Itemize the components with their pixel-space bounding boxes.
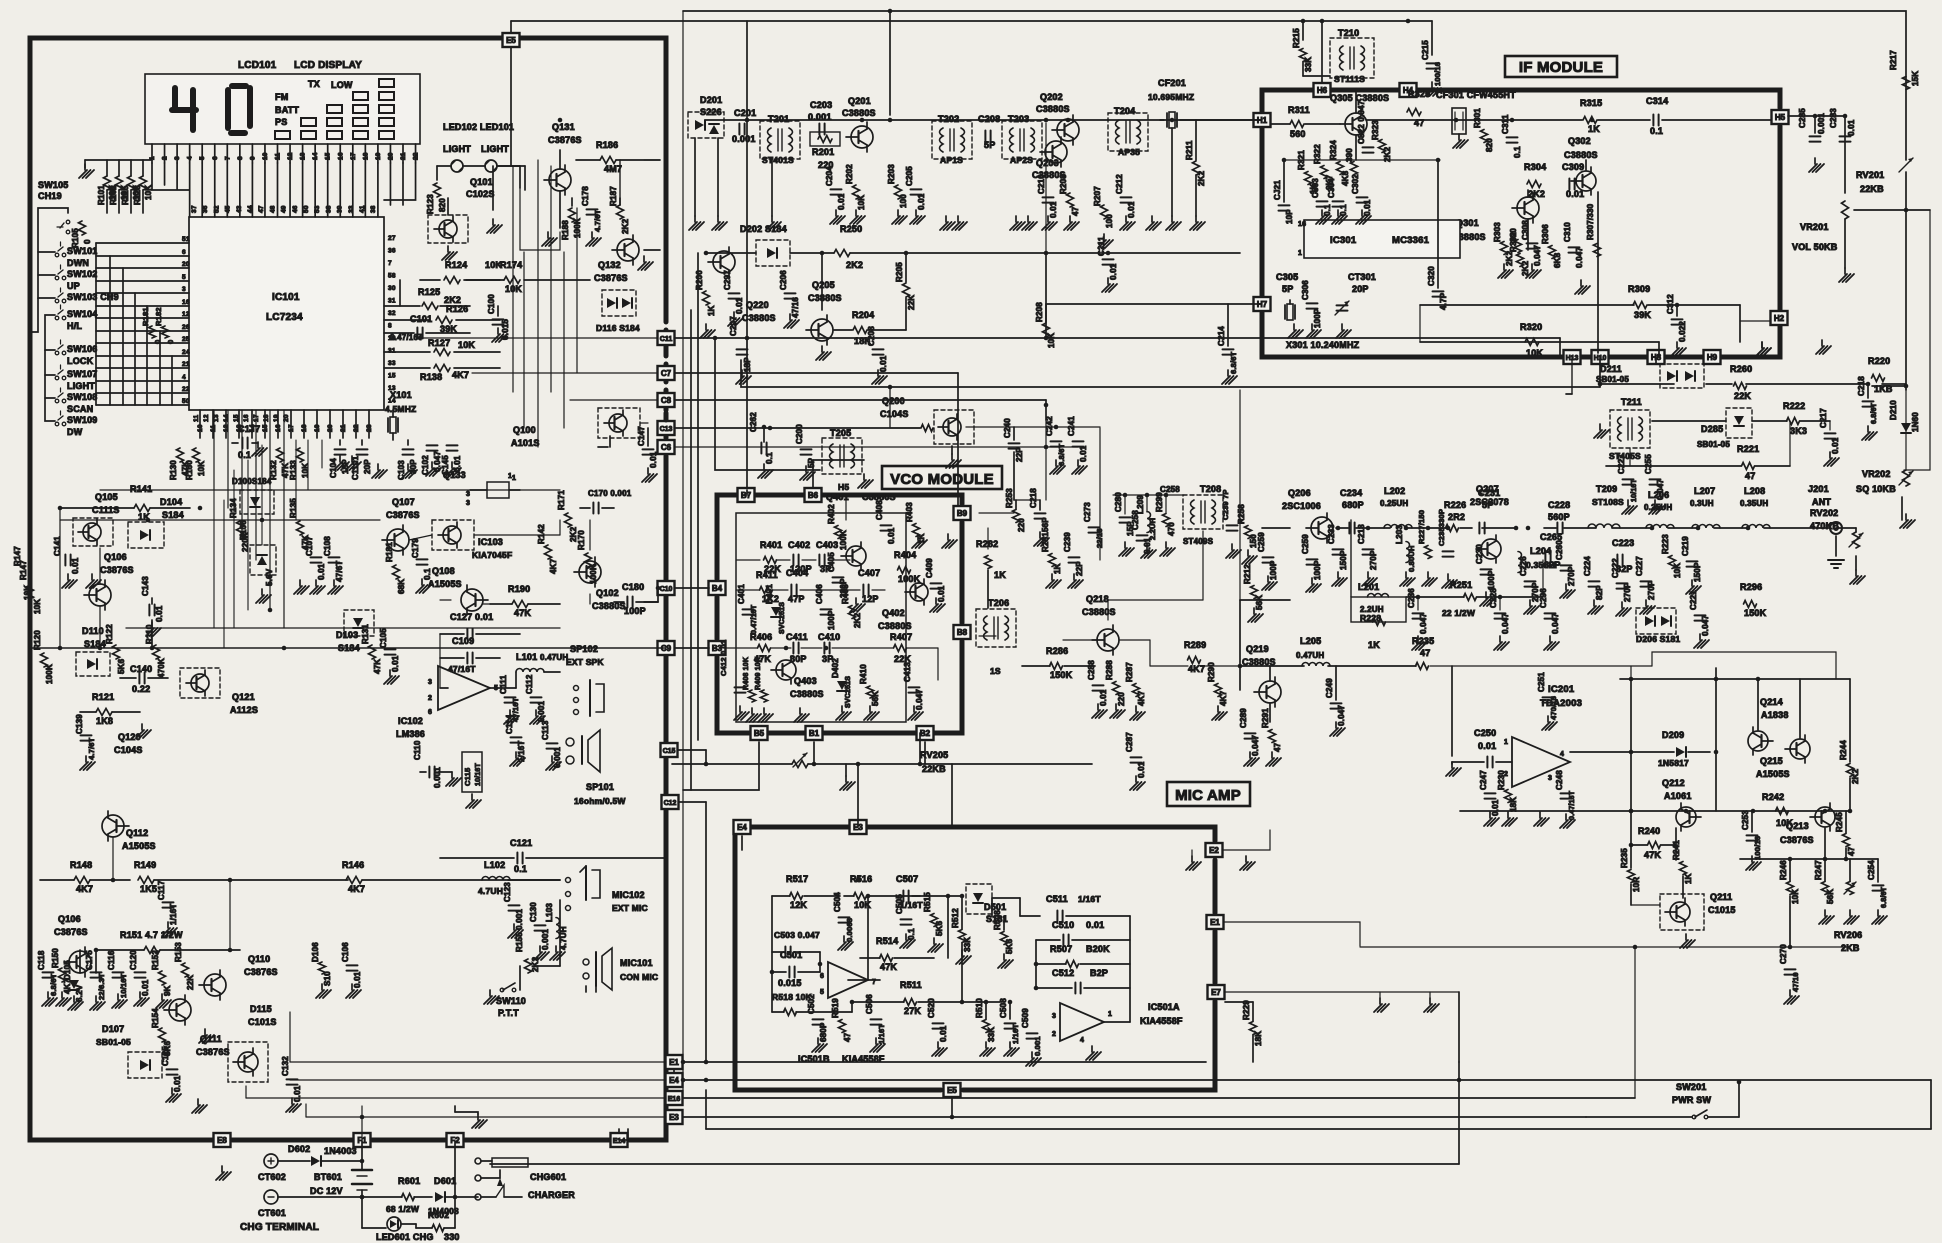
resistor R405	[841, 584, 862, 628]
connector C7	[658, 366, 675, 380]
svg-text:R304: R304	[1524, 162, 1546, 172]
svg-text:150P: 150P	[1693, 562, 1702, 582]
svg-text:C228: C228	[1548, 500, 1570, 510]
inbox row C8	[570, 399, 657, 401]
capacitor C314	[1646, 96, 1668, 136]
diode D210	[1889, 400, 1920, 433]
svg-text:5P: 5P	[1282, 284, 1293, 294]
svg-text:C412 0.01: C412 0.01	[719, 640, 728, 676]
connector H10	[1592, 350, 1609, 364]
bus y=610 left	[30, 647, 666, 649]
svg-text:4: 4	[1080, 1037, 1084, 1044]
svg-text:C273: C273	[1083, 502, 1092, 522]
ground IC501A	[1086, 1046, 1101, 1060]
pot VR201	[1792, 201, 1930, 470]
capacitor C230	[1475, 544, 1496, 590]
svg-text:46: 46	[292, 205, 299, 213]
transistor Q205 labels	[808, 280, 842, 303]
ground E7	[1374, 992, 1439, 1012]
resistor R228	[1360, 613, 1386, 650]
connector C12	[662, 795, 679, 809]
ground C102 C145	[426, 462, 461, 476]
svg-text:0.01: 0.01	[879, 355, 888, 372]
resistor R110	[145, 624, 166, 678]
terminal CT602	[258, 1154, 286, 1182]
wire row2	[706, 252, 1240, 254]
svg-text:10P: 10P	[1285, 209, 1294, 224]
wires audio	[1240, 652, 1836, 756]
svg-text:TX: TX	[308, 79, 320, 89]
svg-text:1: 1	[1298, 250, 1302, 257]
svg-text:C226: C226	[1519, 556, 1528, 576]
ground C177	[252, 442, 267, 456]
bus C10 row	[675, 587, 709, 589]
svg-text:ST111S: ST111S	[1334, 74, 1365, 84]
svg-text:2K2: 2K2	[853, 612, 862, 628]
resistor R170	[577, 530, 598, 584]
svg-text:C212: C212	[1115, 174, 1124, 194]
capacitor C130	[529, 902, 550, 950]
svg-text:R511: R511	[900, 980, 922, 990]
resistor R518	[772, 992, 813, 1016]
inductor L206	[1644, 490, 1674, 528]
svg-text:10K: 10K	[144, 185, 153, 200]
svg-text:0.01: 0.01	[293, 1085, 302, 1102]
capacitor C242	[1045, 416, 1066, 466]
resistor R281	[1041, 532, 1062, 574]
resistor R409	[755, 657, 768, 702]
svg-text:C305: C305	[1276, 272, 1298, 282]
capacitor C232	[1357, 524, 1378, 570]
vertical from C215	[1431, 21, 1433, 55]
svg-text:22: 22	[182, 386, 190, 393]
svg-text:Q214: Q214	[1760, 697, 1783, 707]
resistor R146	[230, 860, 560, 894]
svg-text:0.047: 0.047	[1533, 245, 1542, 266]
capacitor C214	[1217, 326, 1238, 384]
svg-text:22P: 22P	[1075, 561, 1084, 576]
transistor Q403 labels	[790, 676, 824, 699]
switch SW106	[55, 340, 97, 366]
mic amp border	[735, 827, 1215, 1090]
transformer T210	[1330, 28, 1374, 84]
svg-text:C309: C309	[1562, 162, 1584, 172]
bus C8 row	[675, 400, 1046, 420]
connector E3	[850, 820, 867, 834]
svg-text:H5: H5	[1775, 113, 1786, 122]
svg-text:B9: B9	[957, 509, 968, 518]
inductor L204	[1518, 546, 1555, 573]
svg-text:Q107: Q107	[392, 497, 415, 507]
svg-text:C110: C110	[413, 740, 422, 760]
svg-text:33K: 33K	[1304, 57, 1313, 72]
svg-text:100P: 100P	[1313, 308, 1322, 328]
resistor R247	[1814, 859, 1835, 924]
capacitor C303	[1311, 178, 1332, 216]
svg-text:CT301: CT301	[1348, 272, 1376, 282]
svg-text:H2: H2	[1774, 314, 1785, 323]
wire IF H2	[1740, 321, 1771, 356]
svg-text:C3880S: C3880S	[842, 108, 876, 118]
label CHG TERMINAL	[240, 1222, 319, 1233]
capacitor C209	[867, 326, 888, 384]
transistor Q220	[708, 247, 735, 277]
svg-text:R186: R186	[596, 140, 618, 150]
transformer T206	[976, 598, 1016, 676]
svg-text:D402: D402	[831, 658, 840, 678]
capacitor C504	[833, 892, 854, 950]
svg-text:100P: 100P	[1269, 560, 1278, 580]
capacitor C102	[421, 445, 442, 475]
diode D116	[596, 290, 640, 333]
svg-text:D115: D115	[250, 1004, 272, 1014]
svg-text:C222: C222	[1611, 558, 1620, 578]
vertical H6 top	[1321, 21, 1323, 82]
svg-text:S184: S184	[84, 639, 106, 649]
capacitor C503	[772, 930, 820, 958]
vertical x1045	[1044, 123, 1049, 500]
svg-text:C401: C401	[737, 584, 746, 604]
svg-text:R405: R405	[841, 584, 850, 604]
bus C11 row	[675, 336, 1560, 357]
svg-text:IC301: IC301	[1330, 235, 1357, 246]
resistor R211	[1185, 140, 1206, 186]
ground C204	[830, 210, 865, 224]
resistor R203	[887, 164, 908, 208]
svg-text:R404: R404	[894, 550, 916, 560]
svg-text:0.001: 0.001	[1033, 1036, 1042, 1056]
wires LED	[437, 166, 520, 188]
svg-text:L201: L201	[1358, 582, 1379, 592]
svg-text:C208: C208	[867, 326, 876, 346]
capacitor C511	[992, 894, 1130, 922]
svg-text:C7: C7	[661, 369, 672, 378]
svg-text:R135: R135	[289, 498, 298, 518]
svg-text:47: 47	[1745, 471, 1755, 481]
svg-text:DC 12V: DC 12V	[310, 1186, 343, 1196]
resistor R245	[1835, 811, 1856, 859]
svg-text:Q133: Q133	[443, 470, 466, 480]
svg-text:E5: E5	[506, 36, 516, 45]
svg-text:560: 560	[1290, 129, 1306, 139]
svg-text:C6: C6	[661, 443, 672, 452]
svg-text:R519: R519	[831, 998, 840, 1018]
svg-text:R151 4.7 1/2W: R151 4.7 1/2W	[120, 930, 183, 940]
bus C13 row	[675, 427, 920, 429]
svg-text:AP2S: AP2S	[1010, 155, 1033, 165]
svg-text:33K: 33K	[987, 1027, 996, 1042]
resistor R151	[96, 947, 240, 954]
svg-text:C106: C106	[341, 942, 350, 962]
svg-text:47K: 47K	[1644, 850, 1661, 860]
svg-text:33: 33	[348, 205, 355, 213]
svg-text:2K2: 2K2	[846, 260, 863, 270]
svg-text:T205: T205	[830, 428, 851, 438]
svg-text:R146: R146	[342, 860, 364, 870]
resistor R309	[1628, 284, 1651, 320]
diode D110	[76, 626, 110, 676]
svg-text:5P: 5P	[807, 457, 816, 468]
transistor Q201	[846, 122, 873, 152]
transistor Q106 labels	[100, 552, 134, 575]
wire rail 811	[1460, 809, 1852, 814]
capacitor C223	[1612, 538, 1634, 574]
svg-text:C511: C511	[1046, 894, 1068, 904]
transistor Q108	[461, 585, 488, 615]
transistor Q202	[1052, 115, 1079, 145]
capacitor C235	[1437, 509, 1454, 557]
svg-text:14: 14	[312, 152, 319, 160]
resistor R141	[60, 484, 190, 522]
svg-text:0.80UH: 0.80UH	[1407, 545, 1416, 572]
capacitor C210	[1037, 174, 1058, 218]
svg-text:C240: C240	[1003, 418, 1012, 438]
capacitor C117	[157, 880, 178, 936]
svg-text:C3876S: C3876S	[54, 927, 88, 937]
resistor R208	[1035, 302, 1056, 348]
extra mid verticals	[691, 253, 772, 790]
resistor R138	[384, 365, 500, 383]
svg-text:H6: H6	[1317, 86, 1328, 95]
svg-text:0.047: 0.047	[915, 689, 924, 710]
capacitor C180	[614, 582, 658, 616]
diode D601	[428, 1176, 478, 1216]
capacitor C145	[441, 445, 462, 475]
resistor R215	[1292, 28, 1313, 72]
svg-text:C255: C255	[1644, 454, 1653, 474]
resistor R290	[1207, 662, 1228, 706]
svg-text:C253: C253	[1741, 810, 1750, 830]
svg-text:100P: 100P	[624, 606, 646, 616]
svg-text:6.8/6T: 6.8/6T	[49, 973, 58, 996]
svg-text:0.01: 0.01	[391, 655, 400, 672]
svg-text:L203: L203	[1395, 525, 1404, 544]
svg-text:0.01: 0.01	[1137, 761, 1146, 778]
resistor R235	[1412, 636, 1434, 670]
wire B6 up	[813, 460, 864, 487]
svg-text:R407: R407	[890, 632, 912, 642]
svg-text:H5: H5	[838, 482, 849, 492]
svg-text:0.0068: 0.0068	[845, 918, 854, 942]
svg-text:10: 10	[197, 424, 204, 432]
grounds q120	[80, 724, 151, 770]
svg-text:R181: R181	[141, 307, 150, 326]
wire output to audio	[1240, 599, 1290, 601]
svg-text:C404: C404	[786, 568, 808, 578]
svg-text:0.001: 0.001	[541, 929, 550, 950]
svg-text:D601: D601	[434, 1176, 456, 1186]
svg-text:100P: 100P	[1487, 570, 1496, 590]
svg-text:51: 51	[182, 236, 190, 243]
resistor R304	[1524, 162, 1546, 199]
svg-text:R102: R102	[109, 185, 118, 205]
svg-text:47: 47	[1420, 648, 1430, 658]
svg-text:C3876S: C3876S	[548, 135, 582, 145]
svg-text:22/6.3T: 22/6.3T	[97, 973, 106, 1000]
VCO module title box	[882, 466, 1002, 489]
svg-text:LIGHT: LIGHT	[443, 144, 471, 154]
svg-text:C303: C303	[1311, 178, 1320, 198]
svg-text:C297: C297	[723, 270, 732, 290]
svg-text:2: 2	[162, 156, 169, 160]
svg-text:D106: D106	[239, 520, 248, 540]
svg-text:CHARGER: CHARGER	[528, 1190, 575, 1200]
svg-text:C258: C258	[1160, 485, 1180, 494]
svg-text:E8: E8	[217, 1136, 227, 1145]
svg-text:680P: 680P	[819, 1022, 828, 1042]
diode D206	[1636, 608, 1680, 644]
svg-text:Q108: Q108	[432, 566, 455, 576]
svg-text:47K: 47K	[880, 962, 897, 972]
transformer T204	[1108, 106, 1148, 157]
svg-text:R411: R411	[756, 570, 778, 580]
svg-text:T210: T210	[1338, 28, 1359, 38]
svg-text:1K: 1K	[1588, 124, 1600, 134]
svg-text:C143: C143	[141, 576, 150, 596]
transistor Q214	[1748, 679, 1773, 755]
resistor R125	[384, 287, 470, 310]
resistor R200	[695, 270, 716, 316]
resistor R260	[1730, 364, 1752, 401]
svg-text:C121: C121	[510, 838, 532, 848]
ground IC201	[1534, 812, 1549, 826]
svg-text:L101: L101	[516, 652, 537, 662]
diode D602	[278, 1144, 362, 1166]
transistor Q220 labels	[742, 300, 776, 323]
svg-text:R245: R245	[1835, 812, 1844, 832]
connector H2	[1771, 311, 1788, 325]
svg-text:22 1/2W: 22 1/2W	[1442, 608, 1476, 618]
svg-text:C116: C116	[107, 950, 116, 970]
svg-text:36: 36	[202, 205, 209, 213]
transistor Q132	[612, 235, 639, 265]
transistor Q305 labels	[1330, 93, 1389, 103]
svg-text:CJ21: CJ21	[1273, 180, 1282, 200]
svg-text:X301 10.240MHZ: X301 10.240MHZ	[1286, 340, 1360, 350]
resistor R115	[121, 176, 141, 205]
svg-text:A1838: A1838	[1761, 710, 1789, 720]
grounds C242 C241	[1050, 460, 1087, 474]
svg-text:R203: R203	[887, 164, 896, 184]
svg-text:41: 41	[359, 205, 366, 213]
capacitor C309	[1562, 162, 1584, 199]
wire q106 col	[100, 548, 152, 648]
inductor L203	[1395, 525, 1416, 572]
diode D100	[232, 477, 274, 514]
svg-text:R401: R401	[760, 540, 782, 550]
svg-text:22K: 22K	[907, 295, 916, 310]
diode D209	[1570, 730, 1710, 768]
svg-text:J201: J201	[1808, 484, 1829, 494]
svg-text:T202: T202	[938, 114, 959, 124]
capacitor C213	[1301, 534, 1322, 580]
pullup wires	[85, 160, 152, 213]
resistor R251	[1442, 580, 1477, 618]
svg-text:R127: R127	[428, 338, 450, 348]
resistor R301	[1473, 108, 1494, 152]
speaker SP101	[566, 730, 626, 806]
svg-text:1/16T: 1/16T	[1078, 894, 1101, 904]
svg-text:C239: C239	[1063, 532, 1072, 552]
svg-text:10K: 10K	[23, 585, 32, 600]
svg-text:4.7UH: 4.7UH	[478, 886, 503, 896]
svg-text:C507: C507	[896, 874, 918, 884]
svg-text:2K2: 2K2	[1197, 170, 1206, 186]
svg-text:H/L: H/L	[67, 321, 82, 331]
svg-text:68K: 68K	[397, 579, 406, 594]
IC103 KIA7045F	[432, 520, 512, 560]
svg-text:0.47/16T: 0.47/16T	[751, 604, 758, 634]
svg-text:SW107: SW107	[67, 369, 98, 379]
resistor R289	[1184, 640, 1206, 674]
svg-text:C410: C410	[818, 632, 840, 642]
svg-text:C113: C113	[541, 720, 550, 740]
resistor R312	[1345, 148, 1358, 175]
resistor R181	[385, 542, 406, 594]
capacitor C405	[827, 552, 848, 598]
capacitor C114	[505, 714, 526, 762]
svg-text:R288: R288	[1105, 660, 1114, 680]
svg-text:D100S184: D100S184	[232, 477, 272, 486]
svg-text:2K2: 2K2	[621, 218, 630, 234]
resistor R201	[810, 132, 840, 170]
svg-text:MIC AMP: MIC AMP	[1175, 787, 1241, 804]
inductor L208	[1740, 486, 1770, 528]
svg-text:Q121: Q121	[232, 692, 255, 702]
inductor L102	[478, 860, 560, 896]
LCD annunciator LOW	[331, 80, 353, 90]
svg-text:C296: C296	[1539, 588, 1548, 608]
svg-text:27: 27	[388, 235, 396, 242]
main board outline (left block)	[30, 38, 666, 1140]
svg-text:KIA7045F: KIA7045F	[472, 550, 512, 560]
resistor R517	[772, 874, 840, 910]
resistor R315	[1580, 98, 1602, 134]
LCD annunciator BATT	[275, 105, 299, 115]
switch SW102	[55, 265, 97, 291]
diode D201	[688, 95, 724, 138]
svg-text:0.047: 0.047	[1419, 613, 1428, 634]
svg-text:LC7234: LC7234	[266, 312, 303, 323]
svg-text:Q403: Q403	[794, 676, 817, 686]
ground D115	[192, 1099, 231, 1180]
connector F2	[447, 1133, 464, 1147]
svg-text:18K: 18K	[1254, 1031, 1263, 1046]
transistor Q112	[102, 811, 129, 841]
capacitor C123	[503, 882, 524, 938]
svg-text:A1505S: A1505S	[122, 841, 156, 851]
svg-text:D103: D103	[336, 630, 358, 640]
svg-text:C3880S: C3880S	[878, 621, 912, 631]
capacitor C103	[397, 449, 418, 480]
svg-text:9K: 9K	[163, 985, 172, 996]
svg-text:82P: 82P	[1595, 585, 1604, 600]
svg-text:2SC2078: 2SC2078	[1470, 497, 1509, 507]
svg-text:15K: 15K	[1911, 71, 1920, 86]
svg-text:R230: R230	[1497, 770, 1506, 790]
diode D106b	[311, 942, 332, 986]
capacitor C520	[927, 998, 948, 1056]
pot RV201	[1856, 158, 1913, 194]
transistor Q302	[1571, 167, 1596, 195]
transistor Q301 labels	[1452, 218, 1486, 242]
pot RV205	[672, 750, 1092, 790]
resistor R410	[859, 664, 880, 706]
svg-text:R126: R126	[446, 304, 468, 314]
grounds mic	[534, 946, 565, 960]
svg-text:C107: C107	[305, 536, 314, 556]
wire RV202	[1836, 528, 1856, 532]
